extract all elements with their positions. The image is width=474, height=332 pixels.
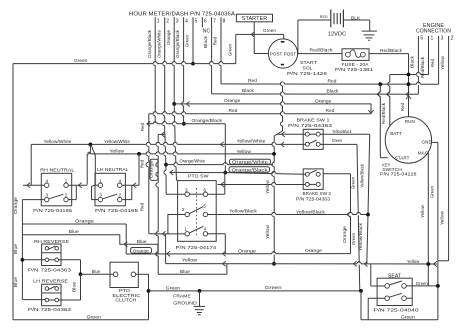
svg-text:Blue: Blue [72, 282, 77, 292]
svg-text:Green: Green [74, 58, 88, 64]
svg-text:NC: NC [203, 28, 211, 34]
wire dash pin1 vertical (orange/black) [153, 23, 155, 124]
wire brake sw1 top-left feed [276, 132, 306, 137]
RH neutral title [40, 167, 74, 173]
wire red to PTO pins 1-2 [149, 215, 185, 237]
wire red/black link to engine pin1 [390, 73, 429, 75]
wire seat row2 right stub [406, 297, 412, 299]
harness bundle vertical right of dash wires [272, 82, 283, 264]
blue left vertical label upper [13, 244, 18, 254]
svg-text:2: 2 [451, 36, 454, 42]
svg-text:RH NEUTRAL: RH NEUTRAL [40, 167, 74, 173]
yellow/black vertical label lower [358, 222, 363, 251]
svg-text:4: 4 [204, 226, 207, 231]
svg-text:Yellow: Yellow [407, 259, 420, 265]
green mid label right [265, 285, 282, 291]
yellow/black label second [296, 209, 326, 214]
svg-text:Red: Red [430, 59, 435, 67]
svg-text:Red/Black: Red/Black [380, 48, 403, 53]
svg-text:Green: Green [166, 285, 181, 291]
svg-text:2: 2 [182, 207, 185, 212]
wire orange branch jog from pin2 [158, 132, 165, 137]
junction dot orange/black lower [223, 171, 227, 175]
orange jog label [75, 218, 94, 224]
svg-text:Red: Red [328, 78, 337, 84]
green label at solenoid top [263, 28, 276, 34]
svg-text:4: 4 [46, 178, 49, 183]
svg-text:Blue: Blue [69, 229, 79, 235]
junction dot orange branch at pin3 [172, 102, 176, 106]
connector arrow on key RUN riser [406, 96, 411, 99]
chassis ground symbol [362, 31, 377, 40]
wire yellow main [88, 152, 274, 154]
yellow/white label left [44, 139, 72, 144]
engine pin1 wire label Red/Black [420, 56, 425, 78]
starter box [236, 14, 272, 22]
svg-text:3: 3 [46, 193, 49, 198]
svg-text:Black: Black [203, 35, 208, 48]
brake sw1 part number [288, 123, 332, 129]
svg-text:P/N 725-04165: P/N 725-04165 [95, 208, 138, 214]
svg-text:Yellow/White: Yellow/White [44, 139, 72, 144]
engine pin3 wire label Red [430, 59, 435, 67]
engine connection pins 5 1 3 2 [418, 36, 453, 42]
junction dot yellow bundle bottom [272, 262, 276, 266]
orange/black label [192, 118, 223, 123]
wire yellow bottom long [166, 261, 437, 267]
RH reverse part number [28, 267, 71, 273]
wire seat row1 green [406, 285, 438, 287]
svg-text:P/N 725-04165: P/N 725-04165 [33, 208, 72, 214]
wire orange from dash pin3 to right column [174, 102, 371, 112]
green mid label left [166, 285, 181, 291]
wire blue left to LH reverse [22, 299, 45, 301]
wire red from dash pin8 to engine pin3 [221, 82, 439, 84]
dash pin3 wire label Orange [166, 30, 171, 45]
orange left vertical label [13, 197, 18, 214]
LH reverse switch [42, 284, 61, 306]
svg-text:RUN: RUN [405, 119, 415, 124]
svg-text:5: 5 [420, 36, 423, 42]
wire red/black drop to key BATT [388, 75, 390, 130]
svg-text:Red/Black: Red/Black [310, 48, 334, 53]
svg-text:RH REVERSE: RH REVERSE [34, 239, 69, 245]
wire orange/black horizontal [147, 121, 226, 126]
wire starter to solenoid junction [253, 22, 255, 35]
svg-text:Black: Black [242, 88, 255, 94]
svg-text:Orange: Orange [148, 160, 153, 178]
svg-text:Yellow/Black: Yellow/Black [332, 129, 352, 134]
svg-text:Yellow: Yellow [110, 149, 125, 154]
engine connection title [416, 23, 451, 34]
wire green left vertical [12, 64, 14, 320]
orange riser label [342, 226, 347, 243]
wire clutch right to ground bus [136, 274, 149, 320]
red vertical label lower [139, 203, 144, 211]
svg-text:Blue: Blue [13, 277, 18, 287]
svg-text:BATT: BATT [390, 131, 402, 136]
wire orange/white branch right [166, 162, 274, 165]
svg-text:Yellow/Black: Yellow/Black [229, 209, 257, 214]
svg-text:CONNECTION: CONNECTION [416, 29, 451, 35]
black label right [327, 89, 340, 95]
wire blue to PTO clutch [81, 273, 114, 275]
start solenoid circle [268, 39, 297, 68]
brake switch 2 box [303, 169, 323, 190]
wire blue horizontal upper [22, 234, 119, 236]
yellow/black brake label [332, 129, 352, 134]
yellow bottom label right [407, 259, 420, 265]
yellow bundle label lower [265, 224, 270, 239]
wire blue vertical left [21, 224, 23, 300]
junction dot clutch green [147, 289, 151, 293]
svg-text:SEAT: SEAT [388, 273, 401, 279]
blue right vertical label [72, 282, 77, 292]
wire dash pin6 stub NC [201, 23, 203, 27]
wire green mid bus [149, 290, 362, 292]
svg-text:Green: Green [87, 314, 102, 320]
svg-text:Red: Red [140, 123, 145, 131]
connector arrow on starter green wire [251, 32, 254, 37]
svg-text:Orange: Orange [315, 98, 332, 104]
junction dot frame ground [198, 289, 202, 293]
svg-text:Green: Green [227, 44, 232, 56]
red/black label right of fuse [380, 48, 403, 53]
svg-text:3: 3 [176, 19, 179, 25]
svg-text:Green: Green [430, 186, 435, 198]
wire yellow/black vertical [367, 134, 370, 264]
svg-text:Red: Red [140, 160, 145, 168]
svg-text:Orange/Black: Orange/Black [175, 29, 180, 58]
junction dot blue clutch node [79, 272, 83, 276]
wire red horizontal mid [149, 112, 371, 114]
seat switch box [377, 278, 412, 305]
blue left vertical label lower [13, 277, 18, 287]
boxed rotated label orange [148, 159, 158, 180]
LH reverse part number [28, 307, 71, 313]
battery RED label [320, 15, 328, 19]
svg-text:6: 6 [203, 187, 206, 192]
fuse box FUSE-20A [342, 49, 369, 61]
connector arrow orange drop end [368, 110, 373, 113]
PTO pin3-pin6 internal link [189, 193, 203, 195]
wire engine pin1 red/black vertical [428, 40, 430, 75]
svg-text:P/N 725-04040: P/N 725-04040 [374, 308, 419, 314]
svg-text:2: 2 [65, 193, 68, 198]
dash pin5 wire label Green [185, 35, 190, 47]
wire orange from RH neutral pin3 [22, 200, 44, 224]
green vertical label lower [351, 233, 356, 245]
wire LH pin3 riser [92, 185, 99, 200]
key batt wire label Red/Black [381, 102, 386, 124]
wire long feed to brake sw2 bottom-left [218, 182, 306, 187]
seat green label [416, 281, 428, 287]
junction dot red to start drop [378, 82, 382, 86]
svg-text:5: 5 [195, 19, 198, 25]
svg-text:Black: Black [410, 55, 415, 68]
wire blue jog [120, 235, 158, 254]
svg-text:5: 5 [203, 203, 206, 208]
boxed label orange bottom [131, 248, 152, 254]
wire dash pin3 vertical (orange) [172, 23, 176, 181]
svg-text:P/N 725-04228: P/N 725-04228 [380, 172, 417, 178]
svg-text:12VDC: 12VDC [328, 32, 347, 38]
svg-text:1: 1 [431, 36, 434, 42]
wire green bottom bus right [361, 319, 438, 321]
svg-text:Red: Red [326, 108, 335, 114]
svg-text:Blue: Blue [180, 269, 190, 275]
key switch label [380, 162, 417, 177]
wire black from dash pin7 to engine pin5 [212, 92, 419, 94]
svg-text:P/N 725-04363: P/N 725-04363 [28, 267, 71, 273]
solenoid bottom terminal mark [281, 64, 284, 66]
wire orange branch vertical [156, 134, 158, 274]
svg-text:Green: Green [416, 281, 428, 287]
svg-text:Red: Red [229, 108, 238, 114]
dash pin4 wire label Orange/Black [175, 29, 180, 58]
svg-text:Green: Green [401, 315, 415, 321]
svg-text:START: START [300, 60, 317, 66]
svg-text:Yellow/Black: Yellow/Black [359, 163, 364, 188]
green bottom left label [87, 314, 102, 320]
brake sw1 title [297, 118, 330, 124]
svg-text:Blue: Blue [137, 239, 147, 245]
wire red drop to key START [378, 84, 387, 158]
svg-text:Orange: Orange [342, 226, 347, 243]
dash pin2 wire label Orange/White [156, 30, 161, 58]
wire yellow/black from brake sw1 [320, 133, 370, 135]
dash pin6 label NC [203, 28, 211, 34]
wire RH pin2 riser [68, 186, 76, 200]
PTO switch title [188, 173, 209, 179]
svg-text:POST POST: POST POST [270, 52, 297, 57]
svg-text:PTO SW: PTO SW [188, 173, 209, 179]
fuse labels [335, 62, 373, 73]
wire PTO pin4 orange drop [208, 234, 226, 254]
key switch circle [385, 117, 431, 163]
orange bottom label right [305, 248, 322, 254]
svg-text:4: 4 [119, 178, 122, 183]
svg-text:Red/Black: Red/Black [381, 102, 386, 124]
svg-text:3: 3 [441, 36, 444, 42]
svg-text:Orange: Orange [224, 98, 241, 104]
svg-text:MAG: MAG [418, 151, 429, 156]
brake switch 1 box [303, 129, 323, 149]
yellow bundle label upper [265, 179, 270, 194]
wire green corner to bottom bus [360, 291, 362, 320]
pto yellow/black label [229, 209, 257, 214]
svg-text:Green: Green [185, 35, 190, 47]
connector arrows on black wire [377, 92, 409, 97]
wire orange/black to brake sw2 [170, 170, 307, 175]
red label right [328, 78, 337, 84]
yellow/black vertical label upper [359, 163, 364, 188]
svg-text:Orange/Black: Orange/Black [192, 118, 223, 123]
LH neutral title [97, 167, 129, 173]
wire yellow drop to blue link [226, 264, 228, 275]
junction dot orange/black at pin4 [182, 122, 186, 126]
orange bottom label mid [238, 248, 256, 254]
svg-text:Orange/Black: Orange/Black [232, 167, 269, 172]
blue upper label [69, 229, 79, 235]
svg-text:GND: GND [422, 140, 433, 145]
svg-text:SOL: SOL [303, 65, 313, 71]
dash pin8 wire label Red [213, 37, 218, 45]
wire dash pin5 vertical (green) [192, 23, 194, 64]
junction dot yellow/black [366, 213, 370, 217]
red mid label left [229, 108, 238, 114]
RH reverse title [34, 239, 69, 245]
junction dot blue at RH reverse [21, 258, 25, 262]
wire green solenoid top feed [251, 34, 284, 39]
svg-text:Yellow: Yellow [237, 149, 252, 154]
svg-text:Orange: Orange [133, 248, 149, 253]
svg-text:STARTER: STARTER [242, 16, 268, 22]
svg-text:Yellow: Yellow [265, 179, 270, 194]
svg-text:Green: Green [332, 138, 343, 143]
wire engine pin3 red vertical [438, 40, 440, 84]
svg-text:4: 4 [185, 19, 188, 25]
solenoid label START SOL P/N 725-1426 [287, 60, 327, 77]
svg-text:FRAME: FRAME [173, 294, 191, 300]
svg-text:Orange/White: Orange/White [156, 30, 161, 58]
wire PTO pin5 yellow/black [208, 212, 368, 217]
svg-text:RED: RED [320, 15, 328, 19]
wire dash pin4 vertical (orange/black) [182, 23, 184, 124]
svg-text:P/N 725-04363: P/N 725-04363 [288, 123, 332, 129]
blue clutch label [92, 269, 101, 275]
wire orange riser to brake sw2 [349, 174, 351, 254]
wire key GND exit [431, 141, 438, 143]
LH reverse title [33, 279, 68, 285]
blue link label [180, 269, 190, 275]
LH neutral part number [95, 208, 138, 214]
boxed label orange/white [230, 159, 271, 164]
wire yellow below PTO [165, 234, 167, 264]
svg-text:Blue: Blue [13, 244, 18, 254]
yellow label left [110, 149, 125, 154]
wire green top bus [13, 62, 236, 64]
RH neutral part number [33, 208, 72, 214]
wire orange/white into PTO pin 3 [166, 193, 185, 195]
PTO part number [176, 245, 217, 251]
svg-text:7: 7 [213, 19, 216, 25]
svg-text:Yellow/White: Yellow/White [237, 138, 266, 143]
wire green from brake sw1 [320, 144, 359, 291]
svg-text:1: 1 [65, 178, 68, 183]
svg-text:P/N 725-1426: P/N 725-1426 [287, 71, 327, 77]
junction dot red at red/black riser [407, 82, 411, 86]
seat part number [374, 308, 419, 314]
key mag yellow label [420, 204, 425, 218]
svg-text:1: 1 [157, 19, 160, 25]
RH reverse switch [42, 244, 61, 266]
wire yellow/white drop to RH pin4 [23, 144, 44, 187]
wire orange/black to PTO pin6 [208, 173, 225, 195]
wire red vertical down-left [146, 114, 149, 234]
wire fuse to engine/key riser (red/black) [369, 54, 409, 117]
brake sw2 part number [296, 197, 330, 203]
svg-text:P/N 725-04174: P/N 725-04174 [176, 245, 217, 251]
PTO clutch label [112, 288, 141, 304]
PTO switch terminals and blades [182, 187, 208, 236]
wire seat row2 left [368, 298, 385, 320]
key switch terminal labels [390, 119, 432, 160]
junction dot yellow branch [137, 152, 141, 156]
green top label [74, 58, 88, 64]
connector arrow orange at pin4 [187, 101, 190, 106]
black label left [242, 88, 255, 94]
junction dot yellow/white split [89, 143, 93, 147]
svg-text:3: 3 [185, 187, 188, 192]
svg-text:HOUR METER/DASH P/N 725-04036A: HOUR METER/DASH P/N 725-04036A [129, 11, 236, 17]
svg-text:Green: Green [350, 177, 355, 189]
svg-text:BRAKE SW 2: BRAKE SW 2 [303, 191, 332, 197]
wire orange horizontal to jog [22, 223, 126, 225]
svg-text:START: START [395, 156, 410, 161]
svg-text:Orange: Orange [166, 30, 171, 45]
svg-text:Orange: Orange [13, 197, 18, 214]
yellow/white label right [237, 138, 266, 143]
wire dash pin2 vertical (orange/white) [163, 23, 167, 194]
svg-text:Red: Red [248, 78, 257, 84]
wire yellow/white split right leg [91, 144, 98, 185]
wire dash pin7 vertical (black) [210, 23, 212, 94]
wire orange jog down [125, 224, 127, 254]
junction dot orange/white branch [164, 163, 168, 167]
frame ground label [173, 294, 197, 307]
svg-text:Orange: Orange [75, 218, 94, 224]
battery 12VDC label [328, 32, 347, 38]
wire yellow/white split left leg [68, 144, 90, 187]
PTO switch box [178, 181, 217, 242]
orange label left [224, 98, 241, 104]
svg-text:Green: Green [263, 28, 276, 34]
wire blue link [158, 273, 227, 275]
svg-text:Black: Black [327, 89, 340, 95]
dash pin1 wire label Orange/Black [147, 29, 152, 58]
wire yellow drop to LH pin4 [122, 154, 140, 188]
wire solenoid right post to fuse (red/black) [298, 53, 342, 55]
wire green bus riser to starter node [236, 34, 251, 63]
svg-text:LH NEUTRAL: LH NEUTRAL [97, 167, 129, 173]
svg-text:Red: Red [213, 37, 218, 45]
junction dot seat green [436, 284, 440, 288]
wire green bottom bus left [13, 319, 149, 321]
wire blue down to LH reverse [59, 274, 81, 300]
green bottom right label [401, 315, 415, 321]
svg-text:P/N 725-04363: P/N 725-04363 [296, 197, 330, 203]
LH neutral switch [95, 173, 125, 206]
svg-text:CLUTCH: CLUTCH [115, 298, 137, 304]
yellow label mid [237, 149, 252, 154]
wire orange long bottom [126, 251, 350, 256]
junction dot red/black riser upper [407, 73, 411, 77]
green vertical label upper [350, 177, 355, 189]
RH neutral switch [41, 173, 71, 206]
frame ground symbol [194, 291, 205, 315]
svg-text:Orange: Orange [305, 248, 322, 254]
green riser label [227, 44, 232, 56]
svg-text:2: 2 [119, 193, 122, 198]
battery positive wire to solenoid [298, 20, 331, 54]
svg-text:2: 2 [166, 19, 169, 25]
svg-text:Yellow: Yellow [420, 204, 425, 218]
junction dot mag yellow [426, 262, 430, 266]
svg-text:P/N 725-1381: P/N 725-1381 [335, 67, 373, 73]
engine yellow vertical label [440, 210, 445, 225]
wire engine pin2 yellow vertical [438, 40, 449, 261]
